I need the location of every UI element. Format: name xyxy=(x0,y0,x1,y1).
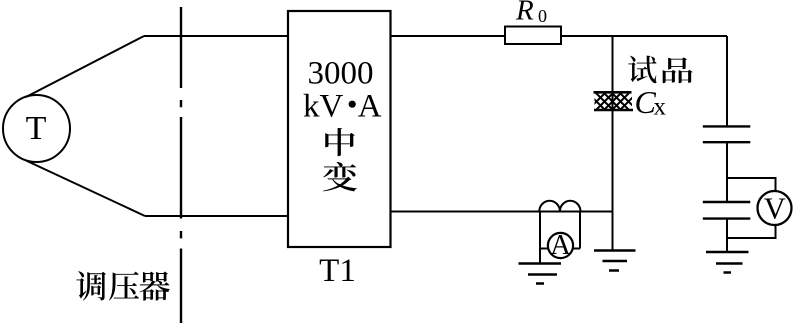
ground under Cx branch xyxy=(594,251,636,271)
wire: riser below C2 to ground xyxy=(726,219,728,253)
wire: CT left leg down to ground xyxy=(539,212,541,264)
svg-text:A: A xyxy=(358,89,382,125)
wire: CT right leg down xyxy=(579,212,581,249)
ground under ammeter xyxy=(519,264,562,284)
regulating transformer T circle xyxy=(3,95,70,162)
divider capacitor C2 plates xyxy=(703,202,751,219)
ground at right riser xyxy=(706,252,749,273)
svg-text:T: T xyxy=(26,110,47,147)
transformer box T1 outline xyxy=(288,11,391,247)
wire: bottom bus from box to Cx branch xyxy=(391,211,613,213)
svg-text:x: x xyxy=(654,94,667,121)
label 器 (of 调压器 regulator label) xyxy=(139,272,169,301)
Cx test-object symbol: top plate xyxy=(594,91,632,94)
label 中 (transformer box text) xyxy=(325,128,355,156)
label 品 (of 试品 test-object label) xyxy=(663,57,693,83)
wire: top bus from box to right corner xyxy=(391,35,728,37)
svg-text:0: 0 xyxy=(538,6,547,26)
wire: bottom diagonal from T circle to bottom bus xyxy=(26,161,145,217)
wire: right riser upper segment xyxy=(726,36,728,126)
svg-text:A: A xyxy=(550,230,571,261)
wire: tap from left leg to ammeter xyxy=(540,248,549,250)
label 变 (transformer box text) xyxy=(323,162,357,191)
wire: top tap to voltmeter xyxy=(727,178,776,192)
wire: top bus left of transformer box xyxy=(144,35,288,37)
Cx test-object symbol: bottom plate xyxy=(594,109,633,112)
label 试 (of 试品 test-object label) xyxy=(628,56,656,84)
current transformer humps on bottom bus xyxy=(539,201,580,212)
label 调 (of 调压器 regulator label) xyxy=(76,271,106,300)
wire: bottom tap from voltmeter xyxy=(727,225,776,239)
ammeter A circle xyxy=(548,233,573,258)
wire: bottom bus left of transformer box xyxy=(145,215,288,217)
resistor R0 body xyxy=(505,27,561,45)
wire: Cx branch vertical (top bus to ground) xyxy=(612,36,614,251)
middle dot of kV·A xyxy=(349,101,356,108)
wire: tap from right leg to ammeter xyxy=(572,248,580,250)
label 压 (of 调压器 regulator label) xyxy=(109,272,139,301)
svg-text:T1: T1 xyxy=(319,253,356,289)
svg-text:kV: kV xyxy=(303,89,344,125)
svg-text:R: R xyxy=(515,0,534,27)
svg-text:V: V xyxy=(764,192,786,226)
dash-dot boundary line (regulator section) xyxy=(180,7,182,323)
voltmeter V circle xyxy=(758,191,792,225)
wire: riser between C1 and C2 xyxy=(726,142,728,202)
svg-text:3000: 3000 xyxy=(308,55,374,91)
divider capacitor C1 plates xyxy=(703,126,751,142)
wire: top diagonal from T circle to top bus xyxy=(26,36,144,97)
